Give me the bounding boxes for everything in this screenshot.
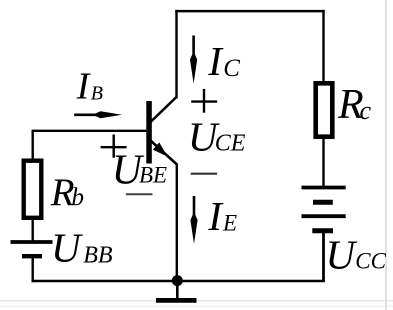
svg-text:U: U — [51, 225, 83, 271]
ground stem — [176, 281, 179, 299]
svg-text:U: U — [326, 232, 358, 278]
transistor Q1 base bar — [146, 101, 152, 164]
battery UCC plate short 1 — [313, 200, 333, 205]
svg-text:I: I — [207, 38, 224, 84]
label UBB — [51, 225, 113, 271]
svg-text:c: c — [360, 96, 372, 125]
svg-text:BB: BB — [83, 243, 113, 269]
transistor Q1 collector lead — [151, 97, 178, 123]
resistor Rb — [24, 161, 42, 218]
svg-text:CE: CE — [215, 130, 246, 156]
current arrow IC — [190, 36, 197, 84]
wire left riser to Rb — [32, 130, 34, 159]
node junction dot — [172, 275, 183, 286]
polarity minus UBE — [126, 193, 153, 195]
polarity plus UBE — [101, 135, 127, 158]
label IC — [207, 38, 240, 84]
svg-text:BE: BE — [139, 163, 167, 188]
label UBE — [112, 148, 168, 194]
wire collector riser — [175, 10, 177, 99]
battery UCC plate short 2 — [312, 228, 333, 233]
svg-text:E: E — [222, 211, 237, 236]
frame border bottom — [0, 301, 393, 307]
wire bottom rail — [32, 280, 325, 282]
label IB — [76, 66, 103, 108]
transistor Q1 emitter lead — [151, 141, 178, 166]
label UCE — [188, 113, 246, 159]
battery UBB plate short — [22, 254, 42, 258]
wire right riser — [322, 10, 324, 82]
label Rb — [50, 171, 84, 214]
wire emitter drop — [176, 164, 178, 281]
wire base lead — [33, 130, 147, 132]
ground bar — [156, 298, 197, 303]
polarity minus UCE — [191, 173, 217, 175]
resistor Rc — [316, 83, 333, 136]
svg-text:I: I — [76, 66, 92, 108]
svg-text:C: C — [223, 55, 240, 82]
battery UBB plate long — [11, 240, 53, 244]
svg-text:b: b — [72, 184, 85, 211]
current arrow IB — [74, 111, 122, 118]
wire Rb to battery UBB — [32, 219, 34, 242]
label UCC — [326, 232, 387, 278]
battery UCC plate long 2 — [302, 214, 346, 218]
battery UCC plate long 1 — [302, 186, 346, 190]
label Rc — [337, 82, 372, 128]
polarity plus UCE — [191, 89, 217, 113]
label IE — [207, 193, 237, 239]
svg-text:CC: CC — [355, 249, 386, 274]
frame border right — [385, 0, 387, 310]
wire top rail — [175, 10, 324, 13]
svg-text:B: B — [91, 83, 103, 105]
svg-text:I: I — [207, 193, 224, 239]
current arrow IE — [190, 196, 197, 244]
wire Rc to battery — [322, 139, 324, 188]
wire battery UBB to bottom rail — [32, 258, 34, 282]
wire battery UCC to bottom rail — [322, 233, 325, 281]
